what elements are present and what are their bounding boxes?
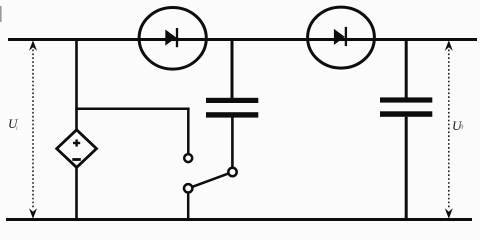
- svg-text:0: 0: [460, 124, 463, 131]
- svg-text:i: i: [16, 125, 18, 132]
